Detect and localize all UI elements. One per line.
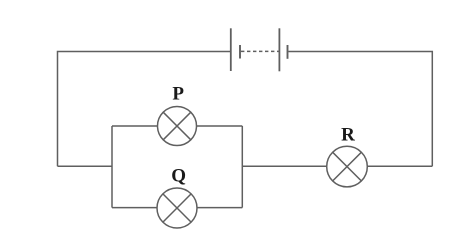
wire top-left segment [58,52,231,167]
battery B1 cell1 short plate [239,45,241,59]
wire bottom branch right [197,207,243,209]
wire left mid horizontal [58,165,113,167]
wire top branch left [112,125,158,127]
wire bottom branch left [112,207,157,209]
battery B1 cell1 long plate [230,28,232,71]
wire mid right horizontal [242,165,327,167]
wire R to right vertical [367,165,432,167]
wire parallel-box left vertical [111,126,113,208]
wire top-right segment [288,52,432,167]
wire parallel-box right vertical [241,126,243,208]
svg-text:Q: Q [171,166,186,187]
lamp R [327,146,368,187]
battery B1 cell2 short plate [287,45,289,59]
svg-text:P: P [172,84,184,105]
lamp Q [157,188,197,228]
svg-text:R: R [341,125,355,146]
wire top branch right [197,125,243,127]
battery B1 cell2 long plate [278,28,280,71]
wire dashed battery link [241,50,279,52]
lamp P [158,107,197,146]
